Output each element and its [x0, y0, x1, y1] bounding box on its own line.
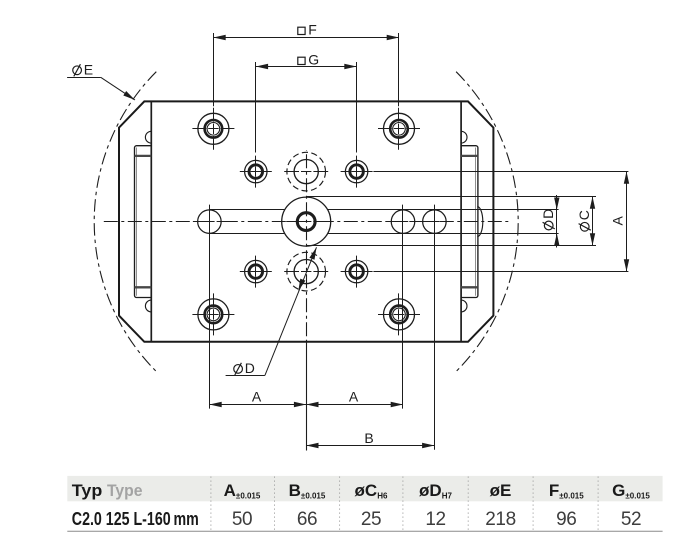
svg-text:øE: øE: [490, 481, 512, 500]
svg-text:A: A: [349, 389, 359, 405]
svg-text:D: D: [245, 360, 255, 376]
svg-text:C2.0 125 L-160 mm: C2.0 125 L-160 mm: [72, 508, 199, 529]
svg-text:D: D: [540, 209, 556, 219]
svg-text:52: 52: [621, 509, 641, 530]
svg-text:G: G: [308, 52, 319, 68]
svg-text:B: B: [364, 430, 373, 446]
svg-text:F: F: [308, 22, 317, 38]
svg-text:25: 25: [361, 509, 381, 530]
svg-text:A: A: [609, 215, 625, 225]
svg-text:218: 218: [485, 509, 516, 530]
svg-text:12: 12: [425, 509, 445, 530]
svg-text:96: 96: [556, 509, 576, 530]
svg-text:Type: Type: [107, 481, 143, 500]
svg-text:A: A: [252, 389, 262, 405]
svg-text:66: 66: [297, 509, 317, 530]
svg-text:50: 50: [232, 509, 252, 530]
svg-text:E: E: [84, 62, 93, 78]
svg-text:C: C: [576, 210, 592, 220]
svg-text:Typ: Typ: [72, 481, 103, 500]
